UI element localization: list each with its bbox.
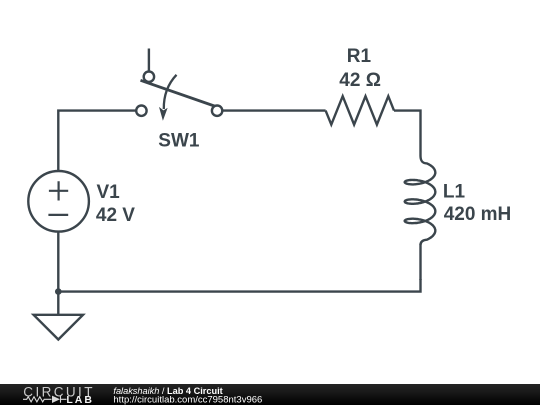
switch SW1 blade [141,80,216,106]
svg-text:http://circuitlab.com/cc7958nt: http://circuitlab.com/cc7958nt3v966 [113,395,262,405]
svg-text:SW1: SW1 [158,131,200,152]
V1 plus sign [49,181,68,200]
wire switch to resistor [222,109,325,111]
inductor L1 [405,156,436,245]
wire resistor to right rail [394,111,421,156]
svg-text:R1: R1 [347,46,372,67]
resistor R1 [326,96,394,124]
svg-text:42 Ω: 42 Ω [339,70,381,91]
wire top-left horizontal [58,111,136,171]
svg-text:V1: V1 [97,182,121,203]
footer bar [0,384,540,405]
switch SW1 actuation arrow [164,75,177,109]
svg-text:420 mH: 420 mH [444,204,512,225]
switch SW1 right terminal [212,106,222,116]
ground [34,315,83,340]
switch SW1 left terminal [136,106,146,116]
svg-text:42 V: 42 V [96,205,135,226]
wire V1 bottom to ground [57,232,59,315]
svg-text:LAB: LAB [66,394,94,405]
wire right rail bottom [419,244,421,280]
logo diode [52,396,60,403]
switch SW1 stub [148,49,150,72]
voltage source V1 [28,171,89,232]
switch SW1 top terminal [144,72,154,82]
V1 minus sign [48,214,68,216]
junction node [55,288,62,295]
logo mini schematic [23,396,67,403]
svg-text:L1: L1 [443,182,466,203]
wire bottom horizontal [58,279,420,292]
switch SW1 arrowhead [159,107,168,121]
